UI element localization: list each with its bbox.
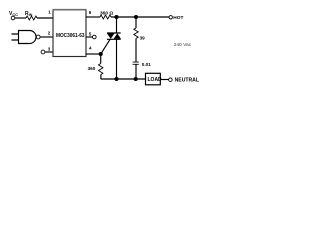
svg-text:360: 360 [88, 66, 96, 71]
svg-text:LOAD: LOAD [148, 77, 163, 83]
svg-text:VCC: VCC [9, 11, 18, 17]
svg-text:360 Ω: 360 Ω [100, 10, 113, 16]
svg-text:39: 39 [140, 36, 146, 41]
svg-text:0.01: 0.01 [142, 62, 151, 67]
svg-text:240 Vac: 240 Vac [174, 42, 192, 48]
svg-text:RIN: RIN [25, 11, 33, 17]
svg-text:NEUTRAL: NEUTRAL [175, 78, 199, 84]
svg-text:HOT: HOT [173, 15, 183, 21]
svg-text:MOC3061-63: MOC3061-63 [56, 33, 85, 39]
